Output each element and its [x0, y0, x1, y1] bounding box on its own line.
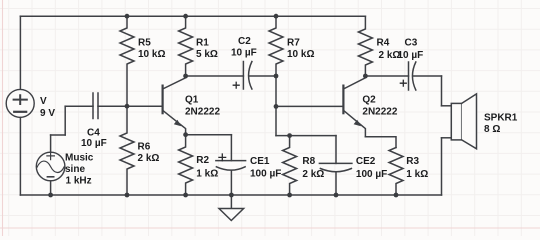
junction R2 bottom — [183, 193, 188, 198]
wire battery bottom — [19, 117, 21, 195]
svg-text:2N2222: 2N2222 — [362, 107, 397, 118]
wire C2 right — [249, 75, 276, 77]
music source V2 (Music sine 1 kHz) — [36, 152, 65, 181]
svg-text:10 µF: 10 µF — [81, 138, 107, 149]
junction R7 top — [274, 14, 279, 19]
svg-text:V: V — [40, 96, 47, 107]
junction CE2 bottom — [334, 193, 339, 198]
transistor Q1 collector — [163, 76, 186, 89]
transistor Q2 emitter arrow — [354, 120, 361, 127]
svg-text:10 µF: 10 µF — [231, 48, 257, 59]
wire C4 left — [65, 105, 93, 107]
transistor Q1 emitter — [163, 110, 186, 134]
svg-text:100 µF: 100 µF — [356, 169, 387, 180]
svg-text:R8: R8 — [302, 156, 315, 167]
wire Q2 emitter to R3 — [365, 137, 396, 148]
resistor R7 — [269, 16, 283, 76]
junction R6 bottom — [125, 193, 130, 198]
wire speaker top terminal — [442, 105, 452, 107]
wire speaker bottom feed — [441, 138, 443, 195]
ground symbol — [230, 195, 232, 209]
transistor Q2 bar — [342, 86, 344, 114]
svg-text:R5: R5 — [138, 38, 151, 49]
svg-text:R4: R4 — [377, 38, 390, 49]
wire CE1 stem bottom — [230, 171, 232, 196]
transistor Q2 emitter — [343, 110, 365, 136]
junction R5 top — [125, 14, 130, 19]
battery V1 (V, 9V) — [6, 89, 34, 117]
svg-text:C2: C2 — [238, 36, 251, 47]
resistor R6 — [120, 106, 134, 195]
wire C3 right — [413, 75, 442, 77]
svg-text:8 Ω: 8 Ω — [484, 124, 500, 135]
wire music bottom — [50, 181, 52, 195]
junction C2 R7 node — [274, 74, 279, 79]
svg-text:10 kΩ: 10 kΩ — [138, 49, 165, 60]
svg-text:2 kΩ: 2 kΩ — [302, 169, 324, 180]
svg-text:CE2: CE2 — [356, 156, 376, 167]
wire jog vertical — [64, 106, 66, 135]
wire left rail (top) — [19, 16, 21, 89]
svg-text:9 V: 9 V — [40, 108, 55, 119]
svg-text:10 kΩ: 10 kΩ — [287, 49, 314, 60]
wire C4 right to Q1 base — [98, 105, 163, 107]
wire CE1 stem top — [230, 135, 232, 161]
transistor Q2 collector — [343, 76, 365, 89]
junction Q1 base node — [125, 104, 130, 109]
junction Q1 collector node — [183, 74, 188, 79]
junction Q2 base node — [274, 104, 279, 109]
svg-text:CE1: CE1 — [250, 156, 270, 167]
wire CE2 stem bottom — [335, 172, 337, 195]
junction R3 bottom — [394, 193, 399, 198]
svg-text:2N2222: 2N2222 — [185, 107, 220, 118]
svg-text:5 kΩ: 5 kΩ — [196, 49, 218, 60]
svg-text:1 kΩ: 1 kΩ — [406, 169, 428, 180]
wire C3 left — [365, 75, 408, 77]
plus sign CE1 — [218, 153, 226, 161]
svg-text:sine: sine — [65, 164, 85, 175]
svg-text:C3: C3 — [405, 38, 418, 49]
capacitor C2 plates — [242, 62, 244, 90]
svg-text:Music: Music — [65, 153, 94, 164]
svg-text:SPKR1: SPKR1 — [484, 113, 518, 124]
svg-text:Q1: Q1 — [185, 95, 199, 106]
svg-text:1 kΩ: 1 kΩ — [196, 169, 218, 180]
junction R8 bottom — [287, 193, 292, 198]
resistor R8 — [283, 136, 297, 195]
resistor R5 — [120, 16, 134, 106]
plus sign C3 — [400, 80, 407, 87]
transistor Q1 bar — [162, 86, 164, 114]
capacitor C4 plates — [93, 93, 98, 119]
junction music bottom — [48, 193, 53, 198]
svg-text:10 µF: 10 µF — [398, 50, 424, 61]
resistor R1 — [179, 16, 193, 76]
wire R7 node down — [275, 76, 277, 106]
resistor R4 — [358, 16, 372, 76]
svg-text:R1: R1 — [196, 38, 209, 49]
resistor R3 — [389, 148, 403, 196]
svg-text:2 kΩ: 2 kΩ — [138, 153, 160, 164]
svg-text:R7: R7 — [287, 38, 300, 49]
wire speaker top feed — [441, 76, 443, 106]
svg-text:Q2: Q2 — [362, 95, 376, 106]
svg-text:R6: R6 — [138, 142, 151, 153]
svg-text:C4: C4 — [87, 128, 100, 139]
junction Q1 emitter node — [183, 132, 188, 137]
wire bottom rail — [20, 194, 441, 196]
svg-text:R3: R3 — [406, 156, 419, 167]
junction Q2 collector node — [363, 74, 368, 79]
resistor R2 — [179, 135, 193, 195]
capacitor CE2 plates — [319, 162, 352, 164]
svg-text:100 µF: 100 µF — [250, 169, 281, 180]
wire speaker bottom terminal — [442, 137, 452, 139]
wire CE1 top — [186, 134, 232, 136]
svg-text:1 kHz: 1 kHz — [66, 176, 92, 187]
capacitor CE1 plates — [216, 160, 246, 162]
svg-text:R2: R2 — [196, 155, 209, 166]
capacitor C3 plates — [408, 62, 410, 90]
junction R1 top — [183, 14, 188, 19]
wire jog horizontal — [51, 134, 66, 136]
speaker SPKR1 body — [451, 103, 461, 139]
wire base node to CE2 — [276, 135, 336, 137]
wire Q2 base — [276, 105, 343, 107]
junction ground node — [229, 193, 234, 198]
junction R8 top — [287, 133, 292, 138]
wire top rail — [20, 15, 365, 17]
wire CE2 stem top — [335, 136, 337, 164]
plus sign C2 — [218, 80, 407, 162]
transistor Q1 emitter arrow — [174, 120, 181, 127]
wire C2 left — [186, 75, 244, 77]
wire music top — [50, 135, 52, 152]
wire base node down — [275, 106, 277, 135]
